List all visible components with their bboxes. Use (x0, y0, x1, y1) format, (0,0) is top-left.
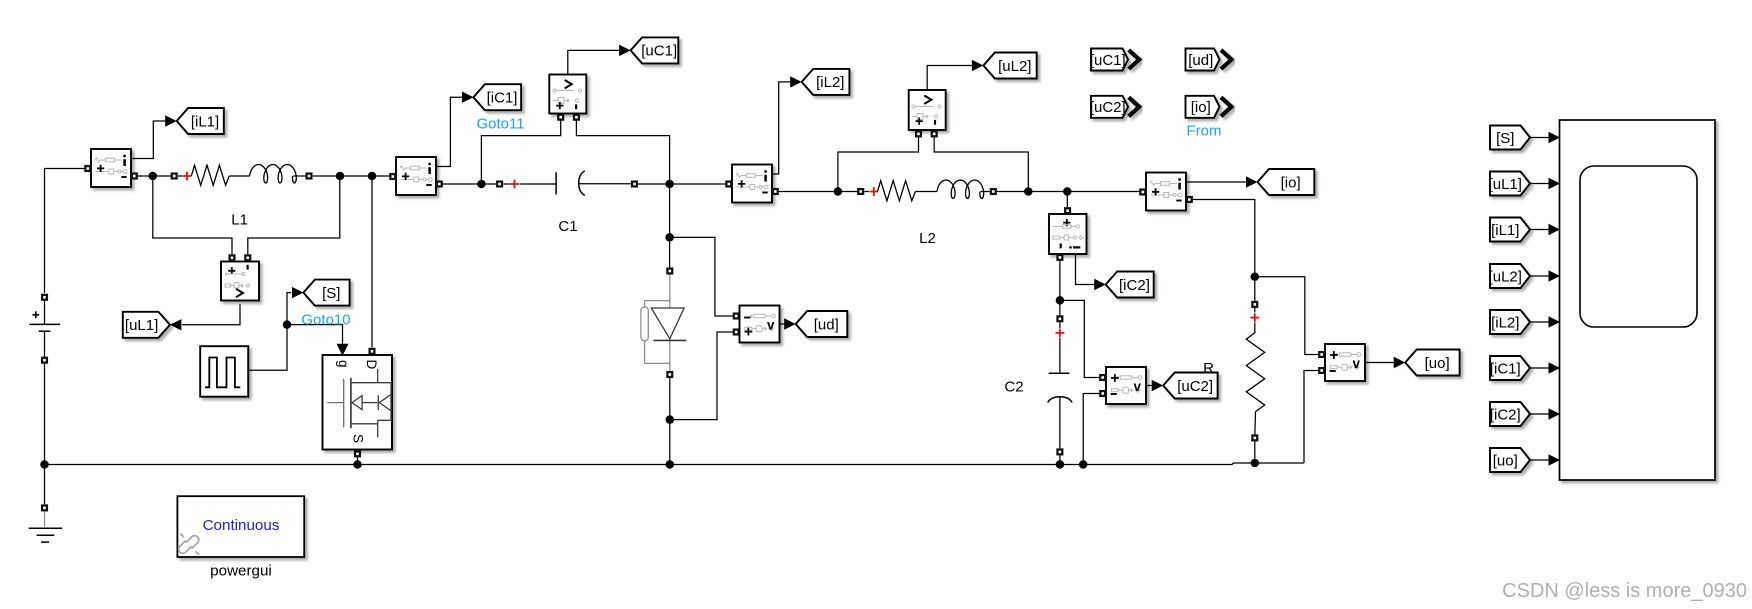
svg-text:v: v (1353, 356, 1361, 371)
wire: MOSFET D to main rail (371, 176, 373, 347)
goto tag [uC1] (619, 37, 678, 63)
wire: L1 right to B2 (313, 175, 391, 177)
goto tag [iL1] (165, 108, 224, 134)
svg-text:[uC2]: [uC2] (1090, 99, 1126, 116)
diode (641, 267, 686, 378)
node bus node diode (666, 460, 675, 469)
wire: bus to ground (44, 465, 46, 505)
DC voltage source (30, 294, 61, 364)
wire: uL1 left tap (153, 176, 232, 254)
svg-text:[uL1]: [uL1] (125, 317, 158, 334)
wire: uC1 left tap (481, 119, 560, 184)
svg-text:[ud]: [ud] (814, 316, 839, 333)
current measurement B1 (iL1) (84, 149, 138, 187)
series RL branch L1 (171, 165, 313, 186)
svg-text:[io]: [io] (1281, 174, 1301, 191)
voltage measurement uL2 (909, 90, 946, 137)
goto tag [uo] (1394, 350, 1460, 376)
node MOSFET D tap (368, 172, 377, 181)
wire: B1 i-out to iL1 tag (131, 121, 167, 159)
wire: uo minus to bus (1304, 371, 1319, 464)
from tag [iL2] to scope (1490, 310, 1560, 334)
svg-text:L1: L1 (231, 212, 248, 229)
goto tag [uL1] (123, 312, 182, 338)
wire: L2 right to B5 (997, 191, 1143, 193)
svg-text:[iC1]: [iC1] (487, 90, 518, 107)
wire: R bottom to bus (1254, 442, 1256, 464)
svg-text:[uL1]: [uL1] (1489, 176, 1522, 193)
wire: ud out to tag (780, 323, 785, 325)
current measurement B4 (iC2) (1049, 207, 1087, 261)
node diode top node (665, 233, 674, 242)
wire: rail down to diode (669, 184, 671, 267)
svg-text:powergui: powergui (210, 563, 272, 580)
MOSFET switch (323, 344, 393, 458)
svg-text:[iC1]: [iC1] (1490, 360, 1521, 377)
goto tag [uL2] (972, 53, 1037, 79)
svg-text:[iL1]: [iL1] (191, 113, 219, 130)
node C2 top node (1056, 296, 1065, 305)
wire: iC2 block to C2 (1059, 261, 1061, 315)
wire: rail down to iC2 block (1066, 192, 1068, 208)
wire: uL2 right tap (934, 134, 1028, 192)
voltage measurement uC2 (1099, 367, 1146, 404)
svg-text:C2: C2 (1004, 379, 1023, 396)
wire: C1 right to B3 (638, 183, 728, 185)
node C1 right node (665, 180, 674, 189)
wire: MOSFET S to bus (357, 458, 359, 465)
wire: B2 i-out to iC1 tag (436, 97, 463, 166)
from tag [iC2] to scope (1490, 402, 1560, 426)
series RL branch L2 (857, 180, 997, 201)
wire: C2 bottom to bus (1059, 455, 1061, 464)
wire: bottom bus (45, 463, 1305, 465)
wire: uL2 left tap (838, 134, 919, 192)
svg-text:CSDN @less is more_0930: CSDN @less is more_0930 (1502, 580, 1747, 602)
wire: source top to B1 (44, 169, 46, 294)
wire: uC1 out to tag (568, 50, 620, 74)
from tag [uC2] (1090, 96, 1139, 118)
goto tag [iC1] (462, 84, 521, 110)
voltage measurement uL1 (221, 254, 259, 300)
voltage measurement uC1 (549, 75, 586, 121)
svg-text:C1: C1 (558, 218, 577, 235)
node C1 left node (477, 180, 486, 189)
svg-text:Goto10: Goto10 (301, 312, 350, 329)
goto tag [uC2] (1152, 373, 1218, 399)
from tag [uL1] to scope (1489, 172, 1560, 196)
node bus node C2 (1056, 460, 1065, 469)
wire: battery bottom to bus (44, 364, 46, 465)
current measurement B2 (iC1) (389, 157, 443, 195)
from tag [iL1] to scope (1490, 218, 1560, 242)
goto tag [io] (1246, 169, 1314, 195)
svg-text:[uo]: [uo] (1425, 355, 1450, 372)
svg-text:[uC2]: [uC2] (1177, 378, 1213, 395)
svg-text:Continuous: Continuous (203, 517, 280, 534)
goto tag [iC2] (1094, 272, 1154, 298)
wire: B3 i-out to iL2 tag (772, 82, 791, 174)
svg-text:L2: L2 (919, 230, 936, 247)
node iC2 tap node (1063, 187, 1072, 196)
wire: S branch to gate (287, 325, 343, 344)
powergui block (177, 496, 304, 557)
wire: uL1 out to tag (182, 304, 240, 325)
wire: B3 minus to L2 (775, 191, 858, 193)
wire: uC2 out to tag (1146, 385, 1152, 387)
svg-text:v: v (767, 318, 775, 333)
ground (29, 504, 63, 542)
svg-text:S: S (350, 434, 365, 443)
svg-text:From: From (1187, 122, 1222, 139)
svg-text:[S]: [S] (322, 285, 340, 302)
goto tag [ud] (784, 311, 847, 337)
svg-text:[uC1]: [uC1] (641, 43, 677, 60)
resistor R branch (1246, 301, 1264, 442)
wire: iC2 out to tag (1076, 254, 1095, 285)
current measurement B3 (iL2) (725, 165, 779, 203)
wire: B1 minus to L1 (135, 175, 171, 177)
wire: B5 i-out to io tag (1186, 181, 1246, 183)
svg-text:[uC1]: [uC1] (1090, 52, 1126, 69)
svg-text:[S]: [S] (1496, 130, 1514, 147)
node L2 left node (834, 187, 843, 196)
svg-text:D: D (364, 360, 379, 370)
node node after B1 (149, 172, 158, 181)
goto tag [S] (292, 280, 350, 306)
from tag [S] to scope (1490, 126, 1560, 150)
node gate branch node (283, 320, 292, 329)
svg-text:[uL2]: [uL2] (1489, 268, 1522, 285)
svg-text:[io]: [io] (1191, 99, 1211, 116)
wire: uL2 out to tag (927, 66, 972, 91)
svg-text:g: g (336, 360, 351, 368)
node uL1 right tap (336, 172, 345, 181)
svg-text:[iC2]: [iC2] (1119, 277, 1150, 294)
svg-text:[iL1]: [iL1] (1491, 222, 1519, 239)
wire: B5 minus down right column (1191, 200, 1255, 301)
goto tag [iL2] (790, 69, 849, 95)
wire: R top branch to uo plus (1255, 277, 1322, 355)
node diode bottom node (666, 415, 675, 424)
node bus node source (40, 460, 49, 469)
wire: diode bottom tap to ud plus (670, 332, 736, 420)
wire: pulse to S tag (248, 293, 291, 371)
from tag [uo] to scope (1490, 448, 1560, 472)
voltage measurement ud (733, 306, 780, 343)
from tag [ud] (1186, 49, 1232, 71)
wire: diode bottom to bus (669, 378, 671, 464)
node L2 right node (1024, 187, 1033, 196)
wire: diode top tap to ud minus (670, 237, 736, 316)
svg-text:[iL2]: [iL2] (816, 74, 844, 91)
capacitor C2 (1048, 315, 1072, 455)
svg-text:[iC2]: [iC2] (1490, 406, 1521, 423)
from tag [io] (1186, 96, 1232, 118)
node bus node uC2 (1079, 460, 1088, 469)
capacitor C1 (496, 171, 638, 196)
node bus node R (1251, 459, 1260, 468)
svg-text:Goto11: Goto11 (477, 116, 525, 133)
pulse generator (200, 346, 248, 397)
scope block (1560, 120, 1716, 480)
node R top node (1251, 272, 1260, 281)
wire: uC2 minus to bus (1083, 394, 1099, 465)
svg-text:[iL2]: [iL2] (1491, 314, 1519, 331)
wire: uC1 right tap (576, 119, 669, 184)
current measurement B5 (io) (1139, 173, 1193, 211)
node bus node MOSFET S (353, 460, 362, 469)
wire: uo out to tag (1365, 362, 1394, 364)
from tag [iC1] to scope (1490, 356, 1560, 380)
from tag [uL2] to scope (1489, 264, 1560, 288)
voltage measurement uo (1318, 344, 1365, 381)
svg-text:[uL2]: [uL2] (998, 58, 1031, 75)
wire: uL1 right tap (248, 176, 340, 254)
wire: B2 minus to C1 (440, 183, 496, 185)
svg-text:R: R (1203, 360, 1214, 377)
svg-text:v: v (1134, 379, 1142, 394)
svg-text:[uo]: [uo] (1493, 452, 1518, 469)
wire: C2 top tap to uC2 plus (1060, 300, 1104, 377)
svg-text:[ud]: [ud] (1188, 52, 1213, 69)
from tag [uC1] (1090, 49, 1139, 71)
